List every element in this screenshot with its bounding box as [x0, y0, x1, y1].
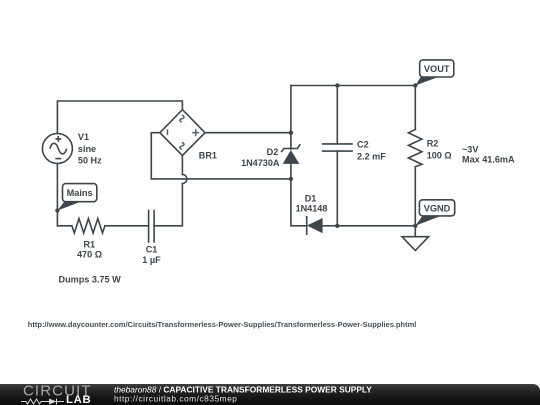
svg-text:sine: sine: [78, 144, 96, 154]
svg-text:LAB: LAB: [66, 394, 91, 405]
node dot C2 top: [335, 83, 339, 87]
wire R1 to C1: [105, 225, 149, 227]
svg-text:C2: C2: [357, 140, 369, 150]
svg-text:R2: R2: [427, 139, 439, 149]
bridge inner tilde bottom: [180, 142, 184, 149]
svg-text:Mains: Mains: [67, 188, 93, 198]
wire top rail left: V1 top to bridge top: [57, 101, 182, 134]
wire D1 to C2 bottom node: [323, 225, 416, 227]
wire D2 anode node down to D1: [291, 179, 307, 226]
wire V1 bottom to bottom rail: [56, 164, 58, 226]
diode D1 triangle: [307, 218, 323, 233]
svg-text:D2: D2: [267, 147, 279, 157]
diode D2 zener cathode bar: [282, 145, 300, 152]
capacitor C1 plates: [149, 211, 155, 243]
svg-text:BR1: BR1: [199, 150, 217, 160]
svg-text:VOUT: VOUT: [424, 64, 450, 74]
wire bridge left to minus rail: [151, 133, 291, 179]
node dot C2 bottom: [335, 224, 339, 228]
flag VOUT box: [420, 60, 454, 77]
flag Mains box: [63, 184, 97, 202]
node dot Mains: [55, 208, 59, 212]
voltage source V1 circle: [42, 134, 72, 164]
svg-text:1 µF: 1 µF: [142, 255, 161, 265]
footer logo squiggle wire: [21, 399, 64, 405]
V1 minus sign: [55, 158, 61, 160]
diode D2 leads: [290, 133, 292, 179]
V1 plus sign: [55, 136, 61, 142]
wire hop over horizontal wire: [182, 175, 187, 184]
diode D2 triangle: [283, 150, 300, 164]
resistor R2 leads: [414, 86, 416, 226]
bridge inner plus: [168, 115, 200, 149]
diode D1 cathode bar: [306, 217, 308, 235]
capacitor C2 plates: [323, 144, 352, 151]
bridge rectifier BR1 diamond: [160, 110, 205, 156]
node dot VGND: [413, 224, 417, 228]
svg-text:VGND: VGND: [424, 203, 451, 213]
V1 sine wave: [50, 143, 67, 154]
wire D2 node riser to top rail: [290, 86, 292, 133]
svg-text:2.2 mF: 2.2 mF: [357, 152, 386, 162]
bridge inner tilde top: [180, 115, 184, 122]
svg-text:R1: R1: [83, 240, 95, 250]
wire C1 to riser: [154, 184, 182, 226]
bridge inner minus (rotated): [167, 129, 169, 135]
svg-text:Max 41.6mA: Max 41.6mA: [462, 155, 515, 165]
svg-text:470 Ω: 470 Ω: [77, 249, 102, 259]
svg-text:http://circuitlab.com/c835mep: http://circuitlab.com/c835mep: [114, 393, 237, 403]
svg-text:1N4730A: 1N4730A: [241, 158, 280, 168]
svg-text:D1: D1: [305, 194, 317, 204]
svg-text:1N4148: 1N4148: [296, 204, 328, 214]
svg-text:C1: C1: [146, 244, 158, 254]
flag VGND tail: [415, 215, 440, 226]
node dot D2 bottom: [289, 177, 293, 181]
node dot D2 top: [289, 131, 293, 135]
svg-text:http://www.daycounter.com/Circ: http://www.daycounter.com/Circuits/Trans…: [28, 320, 417, 329]
capacitor C2 leads: [336, 86, 338, 226]
ground stem: [414, 226, 416, 237]
wire bottom rail V1 to R1: [57, 225, 72, 227]
svg-text:100 Ω: 100 Ω: [427, 151, 452, 161]
footer bar: [0, 384, 540, 405]
svg-text:~3V: ~3V: [462, 144, 478, 154]
footer logo diode arrow: [49, 399, 57, 405]
resistor R1 zigzag: [72, 219, 105, 233]
flag VGND box: [419, 200, 454, 216]
ground symbol triangle: [402, 237, 429, 251]
wire bridge right to D2 top node: [205, 132, 291, 134]
wire top rail to VOUT: [291, 85, 415, 87]
flag Mains tail: [57, 201, 82, 211]
svg-text:Dumps 3.75 W: Dumps 3.75 W: [59, 275, 122, 285]
flag VOUT tail: [415, 76, 437, 86]
svg-text:50 Hz: 50 Hz: [78, 156, 102, 166]
svg-text:V1: V1: [78, 132, 89, 142]
node dot VOUT: [413, 83, 417, 87]
resistor R2 zigzag: [408, 129, 422, 166]
wire riser to bridge bottom: [181, 156, 183, 175]
